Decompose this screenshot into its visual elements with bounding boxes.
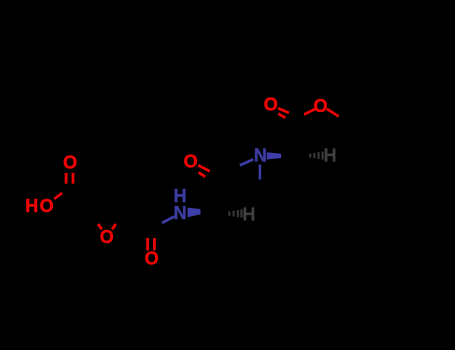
- svg-text:HO: HO: [25, 196, 55, 216]
- wire: bond C16-O18 ester single bond (red half near O): [295, 109, 315, 117]
- svg-text:O: O: [184, 152, 198, 172]
- wire: hashed wedge C10-H alanine stereo hydrogen: [229, 209, 241, 217]
- wire: bond C12-N14 (blue half near proline N): [217, 159, 254, 175]
- svg-text:O: O: [145, 248, 159, 268]
- wire: double bond C1=O2 of carboxylic acid: [66, 173, 73, 188]
- svg-text:N: N: [254, 146, 267, 166]
- wire: bond CH2-phenyl ipso carbon: [351, 106, 383, 124]
- wire: bond C6-N8 (blue half near amide N): [152, 216, 175, 231]
- wire: bond HO-C1 (red half near hydroxyl O): [54, 188, 70, 199]
- wire: double bond C6=O7 of first amide carbonyl: [148, 231, 155, 250]
- wire: double bond C12=O13 of second amide carbonyl: [198, 165, 216, 180]
- wire: hashed wedge C15-H proline stereo hydrogen: [310, 152, 322, 160]
- wire: pyrrolidine bond N14-Cdelta (blue half near N): [258, 165, 261, 194]
- wire: bond C15-C16: [295, 118, 296, 156]
- wire: bond O18-CH2 benzylic (red half near O): [327, 109, 351, 124]
- wedge bond: bold wedge N8-C10 (alanine stereo bond, blue half near N): [188, 208, 214, 218]
- wire: pyrrolidine bond Cbeta-C15: [296, 156, 307, 190]
- wire: pyrrolidine bond Cdelta-Cgamma: [260, 193, 281, 210]
- wire: epoxide bond C5-O4 (red half near O): [112, 213, 123, 229]
- wire: bond C10-C11 methyl: [199, 212, 214, 242]
- wire: bond C1-C3: [70, 188, 90, 213]
- svg-text:O: O: [100, 227, 114, 247]
- svg-text:O: O: [63, 153, 77, 173]
- wire: epoxide bond C3-O4 (red half near O): [91, 213, 102, 229]
- wire: double bond C16=O17 of benzyl ester carbonyl: [278, 108, 295, 121]
- svg-text:O: O: [264, 94, 278, 114]
- wire: epoxide ring bond C3-C5: [91, 212, 124, 215]
- benzene ring of benzyl group: [383, 89, 441, 156]
- wire: bond C5-C6: [123, 213, 151, 231]
- wire: pyrrolidine bond Cgamma-Cbeta: [281, 190, 306, 210]
- wedge bond: bold wedge N14-C15 (proline stereo bond, blue half near N): [267, 152, 296, 159]
- svg-text:O: O: [313, 96, 327, 116]
- svg-text:H: H: [324, 146, 337, 166]
- svg-text:N: N: [174, 203, 187, 223]
- wire: bond C10-C12: [214, 176, 217, 212]
- svg-text:H: H: [242, 205, 255, 225]
